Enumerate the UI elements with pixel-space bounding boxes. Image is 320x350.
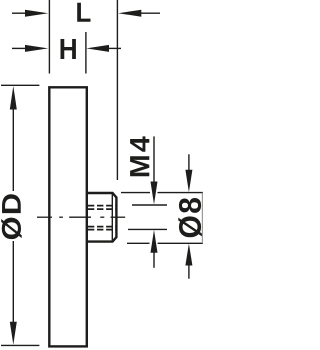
dimension Ø8 bottom arrow	[185, 244, 192, 279]
dimension M4 top arrow	[151, 136, 158, 204]
dimension ØD bottom arrow	[10, 241, 17, 345]
dimension L right arrow	[118, 10, 160, 17]
extension line disc bottom (for ØD)	[1, 344, 39, 346]
dimension L left arrow	[12, 10, 48, 17]
label ØD (rotated)	[1, 194, 22, 239]
disc outline	[49, 87, 87, 346]
thread hidden line inner top	[88, 208, 117, 210]
extension line stud bottom (for Ø8)	[127, 242, 203, 244]
extension line left (disc left edge, for L and H)	[48, 0, 50, 74]
label Ø8 (rotated)	[178, 198, 202, 237]
extension line thread top (for M4)	[132, 204, 167, 206]
extension line thread bottom (for M4)	[128, 228, 167, 230]
thread hidden line outer bottom	[88, 229, 117, 231]
dimension H right arrow	[86, 45, 121, 52]
dimension M4 bottom arrow	[151, 230, 158, 268]
thread hidden line inner bottom	[88, 226, 117, 228]
dimension Ø8 top arrow	[185, 154, 192, 192]
label M4 (rotated)	[130, 136, 149, 176]
dimension H left arrow	[12, 45, 48, 52]
stud chamfer edge line	[111, 194, 113, 240]
label L	[77, 3, 90, 22]
extension line right of stud (for L)	[116, 0, 118, 180]
thread hidden line outer top	[88, 205, 117, 207]
extension line disc top (for ØD)	[1, 84, 39, 86]
centerline of stud	[37, 216, 125, 218]
stud (threaded sleeve) outline with chamfer	[88, 193, 117, 242]
cropped dimension line remnant at right edge	[201, 193, 203, 244]
dimension ØD top arrow	[10, 86, 17, 191]
extension line stud top (for Ø8)	[121, 192, 203, 194]
extension line disc right edge (for H)	[85, 32, 87, 74]
label H	[61, 39, 76, 59]
